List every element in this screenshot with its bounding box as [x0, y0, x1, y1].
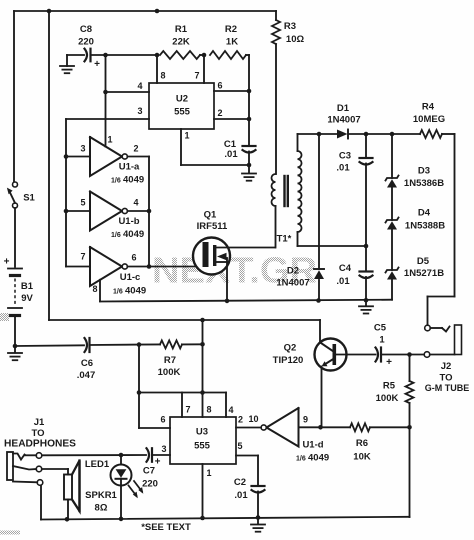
svg-text:J1: J1: [34, 417, 45, 428]
svg-text:5: 5: [237, 441, 242, 451]
svg-text:100K: 100K: [376, 393, 399, 404]
svg-text:TO: TO: [31, 428, 44, 439]
svg-text:+: +: [94, 59, 100, 70]
svg-text:1: 1: [184, 131, 189, 141]
svg-text:4: 4: [137, 81, 142, 91]
svg-text:1/6: 1/6: [111, 177, 121, 184]
svg-text:4: 4: [133, 198, 138, 208]
svg-text:100K: 100K: [158, 367, 181, 378]
svg-text:R6: R6: [356, 438, 368, 449]
svg-text:.01: .01: [336, 276, 350, 287]
svg-text:R4: R4: [422, 101, 435, 112]
svg-text:R2: R2: [225, 24, 237, 35]
svg-text:R1: R1: [175, 24, 188, 35]
svg-text:D4: D4: [418, 207, 431, 218]
svg-text:1N5271B: 1N5271B: [404, 268, 444, 279]
svg-text:1/6: 1/6: [296, 455, 306, 462]
svg-text:S1: S1: [23, 192, 35, 203]
svg-text:2: 2: [238, 415, 243, 425]
svg-text:D2: D2: [287, 265, 299, 276]
svg-text:6: 6: [131, 253, 136, 263]
svg-text:D5: D5: [417, 256, 430, 267]
svg-text:C4: C4: [339, 263, 352, 274]
svg-text:R3: R3: [284, 21, 296, 32]
svg-text:3: 3: [161, 444, 166, 454]
svg-text:IRF511: IRF511: [197, 221, 228, 232]
svg-text:B1: B1: [21, 281, 34, 292]
svg-text:4: 4: [228, 405, 233, 415]
svg-text:TIP120: TIP120: [273, 355, 304, 366]
svg-text:9: 9: [303, 415, 308, 425]
svg-text:10K: 10K: [353, 451, 371, 462]
svg-text:7: 7: [194, 71, 199, 81]
svg-text:U1-c: U1-c: [120, 272, 141, 283]
svg-text:1: 1: [206, 468, 211, 478]
svg-text:555: 555: [194, 440, 211, 451]
svg-text:R5: R5: [383, 380, 396, 391]
svg-text:C5: C5: [374, 322, 387, 333]
svg-text:R7: R7: [164, 355, 176, 366]
svg-text:LED1: LED1: [85, 459, 110, 470]
svg-text:7: 7: [185, 405, 190, 415]
svg-text:7: 7: [80, 252, 85, 262]
svg-text:9V: 9V: [21, 293, 33, 304]
svg-text:1: 1: [107, 135, 112, 145]
svg-text:220: 220: [142, 478, 158, 489]
svg-text:2: 2: [133, 144, 138, 154]
svg-text:22K: 22K: [172, 36, 190, 47]
svg-text:10Ω: 10Ω: [286, 34, 305, 45]
svg-text:4049: 4049: [123, 229, 144, 240]
svg-text:8: 8: [160, 71, 165, 81]
svg-text:+: +: [386, 357, 392, 368]
svg-text:Q1: Q1: [204, 209, 217, 220]
svg-text:1N4007: 1N4007: [327, 114, 360, 125]
svg-text:U1-a: U1-a: [119, 161, 140, 172]
svg-text:U3: U3: [196, 426, 208, 437]
svg-text:8: 8: [92, 284, 97, 294]
svg-text:G-M TUBE: G-M TUBE: [425, 383, 470, 393]
svg-text:T1*: T1*: [277, 233, 292, 244]
svg-text:1N4007: 1N4007: [276, 277, 309, 288]
svg-text:1/6: 1/6: [113, 288, 123, 295]
svg-text:3: 3: [137, 106, 142, 116]
svg-text:220: 220: [78, 36, 94, 47]
svg-text:TO: TO: [439, 372, 452, 383]
svg-text:+: +: [4, 257, 10, 268]
svg-text:4049: 4049: [308, 452, 329, 463]
svg-text:1/6: 1/6: [111, 232, 121, 239]
svg-text:C6: C6: [81, 358, 93, 369]
svg-text:2: 2: [217, 108, 222, 118]
svg-text:SPKR1: SPKR1: [85, 490, 117, 501]
svg-text:D1: D1: [337, 103, 350, 114]
svg-text:10MEG: 10MEG: [413, 114, 445, 125]
svg-text:+: +: [155, 456, 161, 467]
svg-text:.047: .047: [77, 370, 96, 381]
svg-text:1: 1: [379, 334, 385, 345]
svg-text:*SEE TEXT: *SEE TEXT: [141, 522, 191, 533]
svg-text:Q2: Q2: [284, 342, 297, 353]
svg-text:555: 555: [174, 106, 191, 117]
svg-text:1N5388B: 1N5388B: [405, 220, 445, 231]
svg-text:6: 6: [160, 415, 165, 425]
svg-text:C2: C2: [234, 477, 246, 488]
svg-text:C3: C3: [339, 150, 351, 161]
svg-text:U2: U2: [176, 93, 188, 104]
svg-text:1K: 1K: [226, 36, 238, 47]
svg-text:.01: .01: [336, 162, 350, 173]
svg-text:U1-d: U1-d: [302, 439, 323, 450]
svg-text:J2: J2: [441, 361, 452, 372]
svg-text:C8: C8: [80, 24, 92, 35]
svg-text:U1-b: U1-b: [118, 216, 139, 227]
svg-text:D3: D3: [418, 165, 430, 176]
svg-text:5: 5: [80, 198, 85, 208]
svg-text:C7: C7: [143, 465, 155, 476]
svg-text:8: 8: [206, 405, 211, 415]
svg-text:8Ω: 8Ω: [95, 502, 108, 513]
svg-text:4049: 4049: [123, 174, 144, 185]
svg-text:1N5386B: 1N5386B: [404, 178, 444, 189]
svg-text:10: 10: [248, 414, 258, 424]
svg-text:.01: .01: [224, 149, 238, 160]
svg-text:3: 3: [80, 144, 85, 154]
svg-text:4049: 4049: [125, 285, 146, 296]
svg-text:.01: .01: [234, 490, 248, 501]
svg-text:6: 6: [217, 81, 222, 91]
svg-text:HEADPHONES: HEADPHONES: [4, 439, 76, 450]
